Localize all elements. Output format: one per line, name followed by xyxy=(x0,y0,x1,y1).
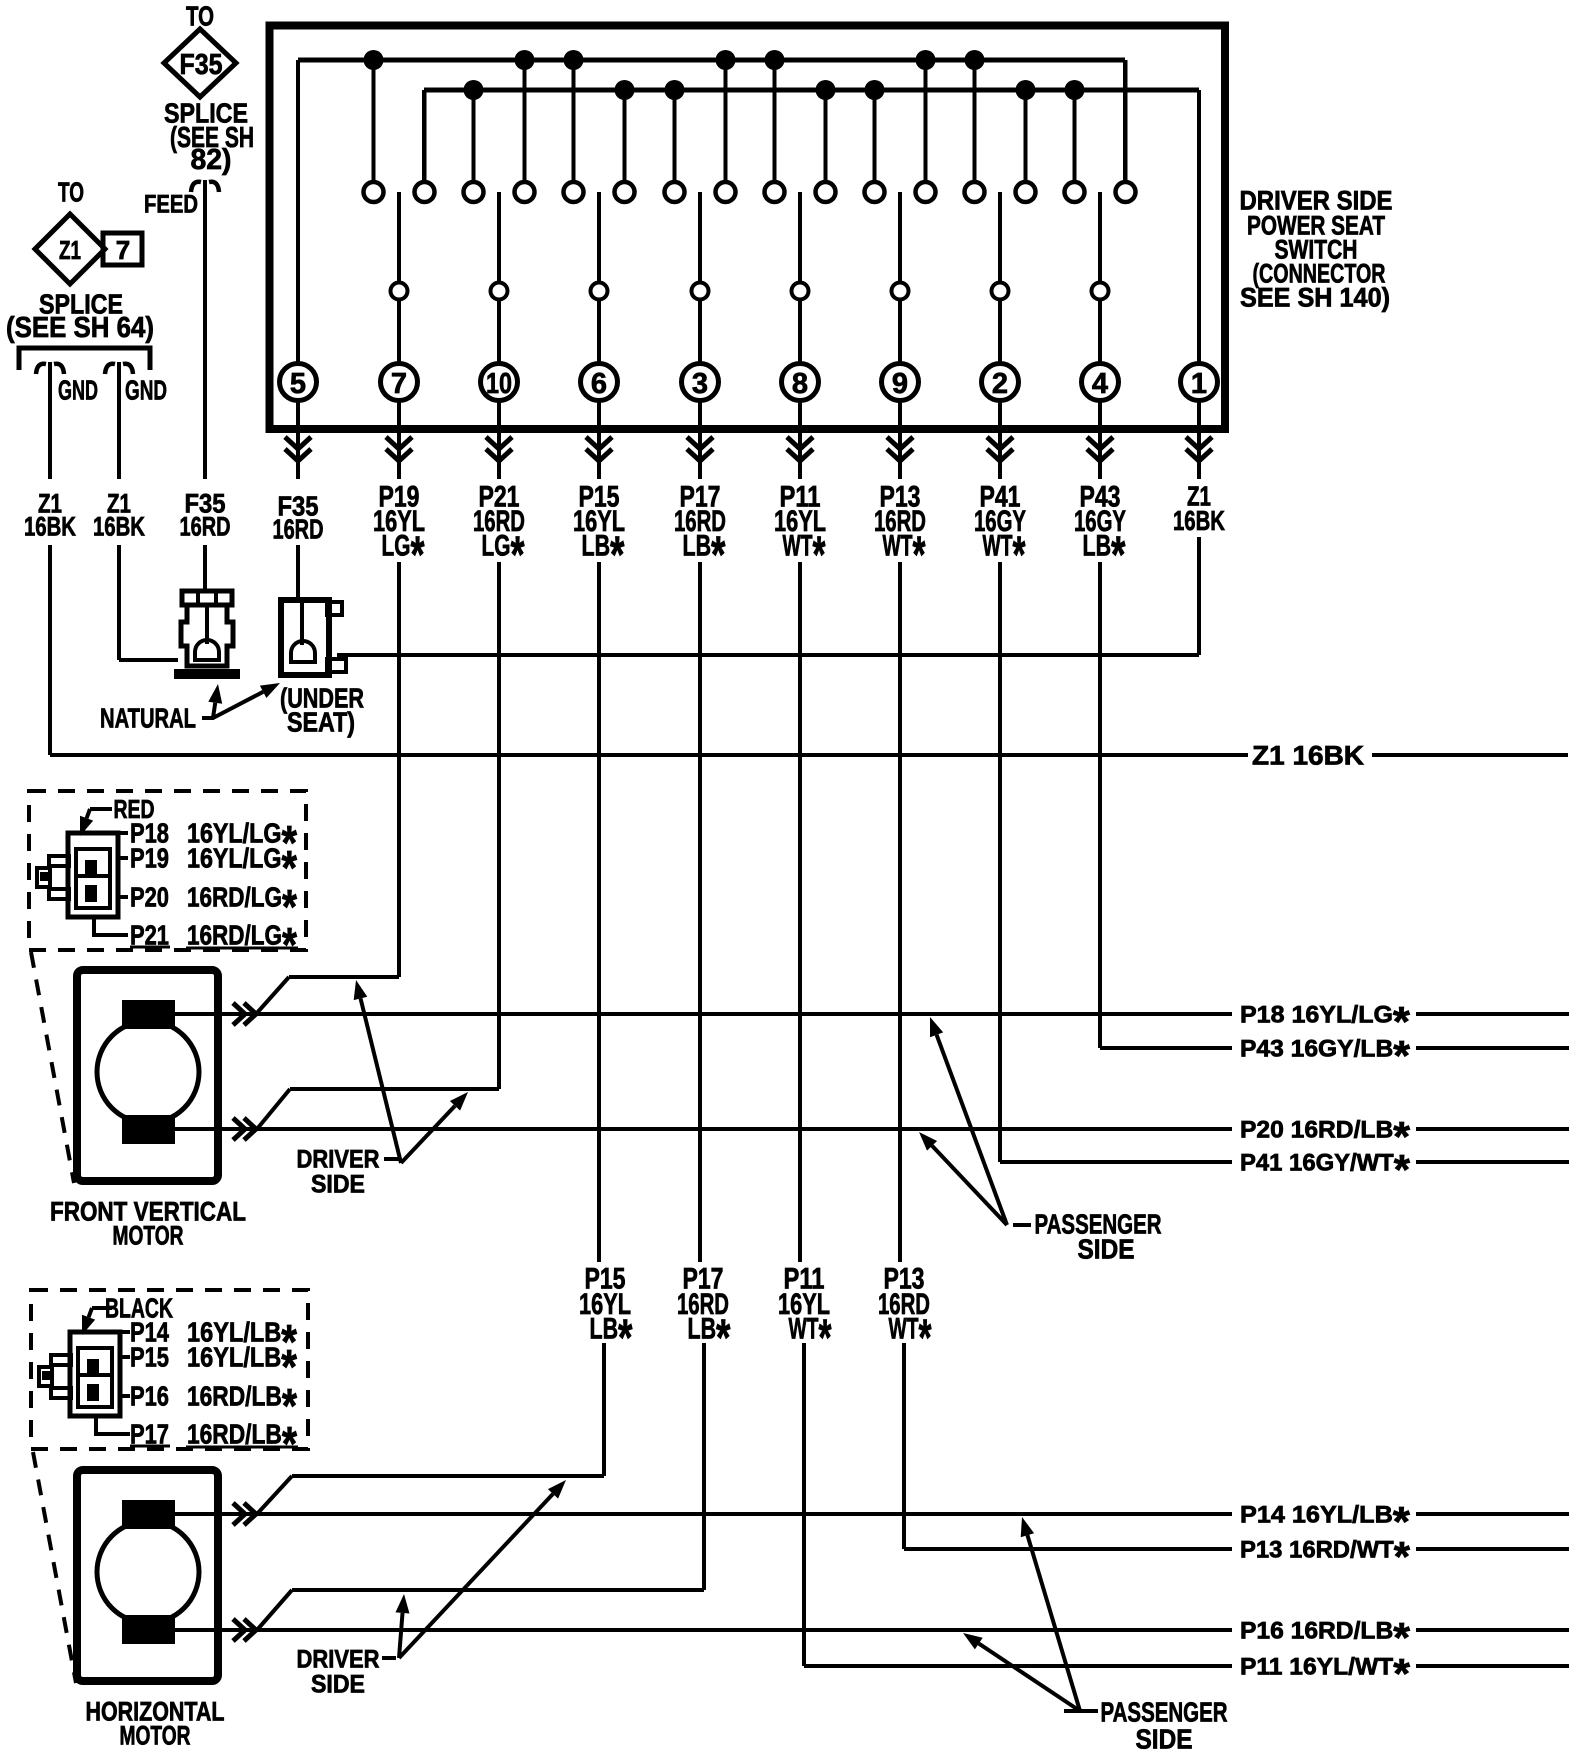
svg-text:7: 7 xyxy=(391,368,407,400)
svg-text:P15: P15 xyxy=(130,1342,169,1373)
svg-text:8: 8 xyxy=(792,368,808,400)
svg-text:1: 1 xyxy=(1191,368,1207,400)
svg-text:16BK: 16BK xyxy=(1173,505,1225,536)
svg-text:SIDE: SIDE xyxy=(1136,1724,1193,1752)
svg-text:SEE SH 140): SEE SH 140) xyxy=(1240,282,1390,312)
svg-text:MOTOR: MOTOR xyxy=(113,1220,184,1250)
svg-text:9: 9 xyxy=(892,368,908,400)
svg-text:16BK: 16BK xyxy=(24,511,76,541)
svg-text:4: 4 xyxy=(1092,368,1108,400)
svg-text:6: 6 xyxy=(591,368,607,400)
svg-text:SIDE: SIDE xyxy=(311,1671,365,1699)
svg-text:16RD: 16RD xyxy=(180,511,231,541)
svg-text:2: 2 xyxy=(992,368,1008,400)
svg-text:7: 7 xyxy=(116,235,130,265)
svg-text:GND: GND xyxy=(125,375,167,406)
svg-text:NATURAL: NATURAL xyxy=(100,703,196,734)
svg-text:DRIVER: DRIVER xyxy=(297,1146,380,1174)
svg-text:16RD: 16RD xyxy=(273,514,324,545)
svg-text:SEAT): SEAT) xyxy=(287,707,355,738)
svg-text:SIDE: SIDE xyxy=(311,1171,365,1199)
svg-text:16BK: 16BK xyxy=(93,511,145,541)
svg-text:DRIVER: DRIVER xyxy=(297,1646,380,1674)
svg-text:SIDE: SIDE xyxy=(1078,1234,1135,1265)
svg-text:TO: TO xyxy=(58,177,84,208)
svg-text:FEED: FEED xyxy=(144,191,198,219)
svg-text:5: 5 xyxy=(290,368,306,400)
svg-text:Z1: Z1 xyxy=(59,235,81,265)
svg-text:P16: P16 xyxy=(130,1381,169,1412)
svg-text:P19: P19 xyxy=(130,843,169,874)
svg-text:MOTOR: MOTOR xyxy=(120,1720,191,1750)
svg-text:F35: F35 xyxy=(180,49,223,81)
svg-text:(SEE SH 64): (SEE SH 64) xyxy=(6,312,154,344)
svg-text:82): 82) xyxy=(191,144,232,176)
svg-text:10: 10 xyxy=(486,368,512,400)
svg-text:GND: GND xyxy=(58,375,98,406)
svg-text:Z1 16BK: Z1 16BK xyxy=(1252,740,1365,770)
svg-text:3: 3 xyxy=(692,368,708,400)
svg-text:P20: P20 xyxy=(130,882,169,913)
